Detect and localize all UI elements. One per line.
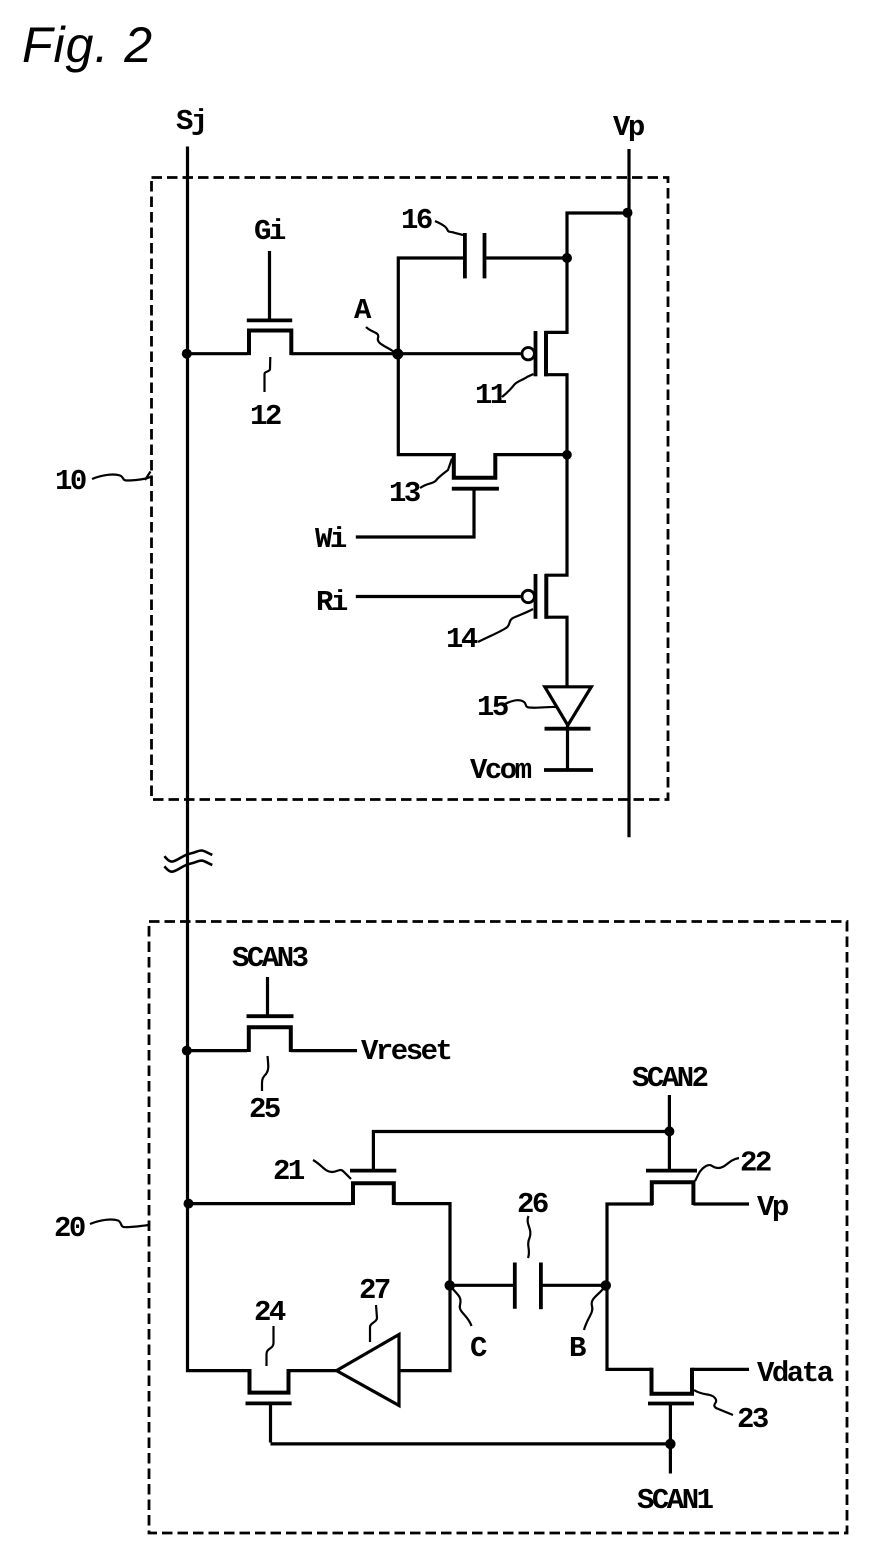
- leader for 25: [262, 1056, 268, 1091]
- transistor 14 gate bubble: [522, 590, 534, 602]
- leader for 11: [502, 374, 534, 397]
- transistor 13 gate bar: [452, 487, 499, 491]
- block 10 dashed box: [152, 178, 669, 800]
- transistor 11 gate wire from node A: [398, 352, 521, 355]
- wire transistor 24 to inverter output: [290, 1369, 337, 1372]
- transistor 21 channel: [353, 1183, 394, 1205]
- break symbol on Sj: [164, 850, 212, 861]
- capacitor C26 left plate: [513, 1263, 517, 1309]
- leader for 12: [265, 357, 271, 392]
- transistor 13 channel: [454, 453, 496, 478]
- transistor 12 gate bar: [247, 318, 292, 322]
- node B dot: [601, 1280, 611, 1290]
- leader for 16: [435, 221, 463, 235]
- svg-text:15: 15: [477, 691, 508, 724]
- transistor 13 gate line and Wi wire: [356, 490, 474, 537]
- diode 15 cathode bar: [545, 727, 591, 731]
- transistor 11 gate bar: [534, 331, 538, 376]
- leader for C: [452, 1288, 472, 1326]
- leader for 20: [90, 1220, 149, 1228]
- svg-text:Vp: Vp: [613, 111, 645, 144]
- svg-text:B: B: [569, 1332, 586, 1365]
- capacitor C26 right plate: [539, 1263, 543, 1310]
- transistor 23 gate bar: [648, 1402, 694, 1406]
- node C dot: [445, 1280, 455, 1290]
- leader for A: [366, 327, 394, 352]
- transistor 14 drain arm: [545, 455, 567, 575]
- transistor 14 channel: [544, 574, 548, 619]
- wire node B rail to transistor 22: [607, 1204, 653, 1285]
- wire transistor 22 to Vp: [693, 1202, 749, 1205]
- transistor 12 gate line: [268, 251, 271, 319]
- capacitor C16 left plate: [463, 233, 467, 278]
- wire inverter input from node C rail: [399, 1285, 450, 1370]
- leader for 22: [695, 1158, 739, 1181]
- svg-text:Vcom: Vcom: [470, 754, 532, 787]
- transistor 25 gate line: [266, 977, 269, 1015]
- svg-text:SCAN2: SCAN2: [632, 1062, 708, 1095]
- svg-text:21: 21: [273, 1155, 305, 1188]
- svg-text:14: 14: [446, 623, 478, 656]
- junction dot right rail: [562, 450, 572, 460]
- svg-text:Vdata: Vdata: [757, 1357, 834, 1390]
- svg-text:20: 20: [54, 1212, 85, 1245]
- svg-text:Wi: Wi: [315, 523, 347, 556]
- transistor 14 gate bar: [534, 574, 538, 619]
- wire node C to capacitor 26: [450, 1284, 513, 1287]
- transistor 11 channel: [544, 331, 548, 376]
- transistor 14 gate wire: [356, 595, 521, 598]
- junction dot SCAN2: [664, 1126, 674, 1136]
- node A dot: [392, 349, 403, 360]
- transistor 24 channel: [250, 1369, 289, 1393]
- transistor 14 source arm: [545, 617, 567, 687]
- transistor 11 source arm: [545, 375, 568, 455]
- wire Sj to transistor 25: [188, 1049, 248, 1052]
- Vcom terminal bar: [544, 768, 593, 772]
- wire Sj to transistor 21: [188, 1202, 352, 1205]
- transistor 11 gate bubble: [522, 348, 534, 360]
- wire capacitor 26 to node B: [543, 1284, 607, 1287]
- capacitor C16 right plate: [483, 233, 487, 278]
- inverter 27 triangle: [337, 1335, 400, 1406]
- svg-text:Fig. 2: Fig. 2: [22, 17, 153, 73]
- svg-text:12: 12: [250, 400, 281, 433]
- junction dot Sj row25: [182, 1046, 192, 1056]
- wire transistor 21 to node C rail: [396, 1204, 451, 1286]
- transistor 23 gate line: [669, 1405, 672, 1474]
- wire Sj vertical: [188, 147, 248, 1371]
- wire junction up and to Vp: [567, 213, 629, 258]
- transistor 21 gate bar: [350, 1169, 396, 1173]
- junction dot SCAN1: [665, 1439, 675, 1449]
- transistor 22 gate bar: [646, 1169, 697, 1173]
- transistor 11 drain arm: [545, 258, 568, 332]
- SCAN2 vertical: [668, 1095, 671, 1169]
- wire node B rail to transistor 23: [607, 1285, 652, 1369]
- transistor 23 channel: [652, 1368, 693, 1394]
- wire node A up to capacitor 16: [398, 258, 463, 354]
- diode 15 bottom wire: [566, 725, 569, 770]
- leader for B: [584, 1289, 603, 1330]
- wire transistor 23 to Vdata: [692, 1368, 749, 1371]
- svg-text:10: 10: [55, 465, 86, 498]
- leader for 15: [505, 700, 556, 708]
- SCAN1 wire: [271, 1442, 670, 1445]
- svg-text:13: 13: [389, 477, 420, 510]
- svg-text:SCAN3: SCAN3: [232, 942, 308, 975]
- leader for 14: [478, 609, 533, 642]
- transistor 25 gate bar: [247, 1014, 294, 1018]
- leader for 26: [528, 1216, 531, 1258]
- leader for 13: [420, 459, 452, 489]
- wire transistor 25 to Vreset: [291, 1049, 357, 1052]
- diode 15 triangle: [545, 687, 592, 726]
- svg-text:Sj: Sj: [176, 105, 206, 138]
- svg-text:SCAN1: SCAN1: [637, 1484, 714, 1517]
- leader for 23: [694, 1390, 733, 1415]
- svg-text:Vp: Vp: [757, 1191, 789, 1224]
- leader for 27: [370, 1305, 377, 1342]
- svg-text:25: 25: [249, 1093, 280, 1126]
- transistor 25 channel: [249, 1027, 291, 1052]
- wire Sj to transistor 12: [188, 352, 248, 355]
- junction dot Sj row21: [184, 1199, 194, 1209]
- transistor 24 gate bar: [246, 1402, 292, 1406]
- svg-text:26: 26: [517, 1188, 548, 1221]
- transistor 12 channel: [249, 331, 291, 356]
- junction dot on Vp: [623, 208, 633, 218]
- svg-text:Gi: Gi: [254, 215, 286, 248]
- wire node A down to transistor 13: [398, 354, 452, 455]
- svg-text:Ri: Ri: [316, 586, 348, 619]
- wire transistor 12 to node A: [291, 352, 398, 355]
- wire capacitor 16 to junction: [486, 256, 567, 259]
- leader for 10: [92, 472, 151, 481]
- svg-text:23: 23: [737, 1403, 768, 1436]
- svg-text:Vreset: Vreset: [361, 1035, 451, 1068]
- transistor 22 channel: [652, 1182, 694, 1205]
- block 20 dashed box: [149, 922, 847, 1534]
- svg-text:27: 27: [359, 1274, 390, 1307]
- junction dot cap16 right: [562, 253, 572, 263]
- SCAN2 horizontal wire: [373, 1132, 669, 1170]
- svg-text:24: 24: [254, 1296, 286, 1329]
- junction Sj/gate wire: [182, 349, 192, 359]
- svg-text:C: C: [470, 1332, 487, 1365]
- transistor 24 gate line: [269, 1405, 272, 1443]
- wire transistor 13 to right rail: [495, 453, 567, 456]
- leader for 24: [267, 1326, 274, 1366]
- svg-text:16: 16: [401, 204, 432, 237]
- svg-text:22: 22: [740, 1147, 771, 1180]
- leader for 21: [313, 1160, 351, 1179]
- wire Vp vertical: [627, 149, 630, 837]
